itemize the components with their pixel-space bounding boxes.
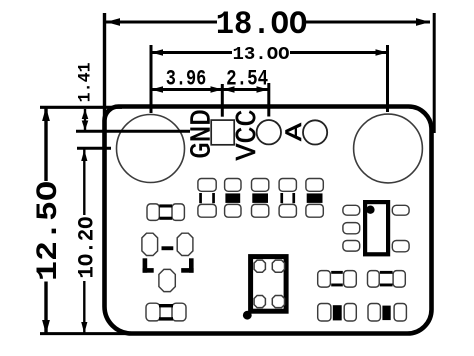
svg-text:13.OO: 13.OO (233, 43, 290, 65)
svg-text:2.54: 2.54 (226, 67, 268, 92)
svg-text:1O.2O: 1O.2O (74, 217, 100, 279)
svg-text:1.41: 1.41 (77, 62, 96, 102)
svg-text:3.96: 3.96 (166, 67, 207, 92)
svg-text:12.5O: 12.5O (32, 181, 66, 281)
svg-text:18.OO: 18.OO (216, 6, 308, 43)
